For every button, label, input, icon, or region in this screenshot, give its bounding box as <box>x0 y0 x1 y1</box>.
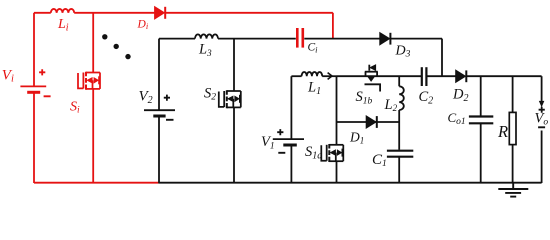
svg-text:Vo: Vo <box>535 111 549 128</box>
wire: L2 bottom to D1 junction and C1 <box>398 110 400 150</box>
svg-text:L3: L3 <box>198 42 212 58</box>
wire: R branch vertical top <box>512 76 514 112</box>
wire: L3 to Ci left plate <box>218 38 296 40</box>
wire: L1 to junction with arrow <box>322 75 336 77</box>
wire: red top horizontal (Di to right corner) <box>165 12 333 14</box>
battery Vi <box>20 69 50 96</box>
wire: S2 drain vertical <box>233 39 235 92</box>
wire: S2 source vertical to rail <box>233 107 235 183</box>
wire: S1a source to rail <box>336 161 338 183</box>
wire: Vo lower vertical to rail <box>541 131 543 184</box>
svg-text:Li: Li <box>57 17 69 34</box>
svg-text:Co1: Co1 <box>448 110 466 127</box>
wire: L2 node vertical top <box>398 76 400 86</box>
wire: red top horizontal (corner to inductor Li) <box>34 12 51 14</box>
diode D3 <box>380 33 391 45</box>
wire: red top loop left vertical <box>33 13 35 86</box>
svg-text:C1: C1 <box>372 152 387 169</box>
wire: V2 bottom to rail <box>158 116 160 183</box>
inductor Li <box>51 9 74 13</box>
svg-text:Di: Di <box>137 18 149 31</box>
wire: D1 line horizontal <box>337 121 400 123</box>
capacitor C2 <box>422 67 427 86</box>
svg-text:Si: Si <box>70 99 80 115</box>
inductor L1 <box>302 72 323 76</box>
svg-text:L1: L1 <box>307 80 321 98</box>
wire: C1 bottom to rail <box>398 157 400 183</box>
wire: red rail bottom <box>34 182 159 184</box>
svg-text:D2: D2 <box>452 87 468 105</box>
svg-text:R: R <box>497 122 508 141</box>
transistor S1a <box>321 144 343 162</box>
svg-text:L2: L2 <box>384 97 398 113</box>
wire: C2 to D2 <box>428 75 456 77</box>
wire: V1/L1 corner vertical <box>290 76 292 138</box>
wire: S1a drain vertical (L1 junction through D1 node) <box>336 76 338 145</box>
minus sign Vo <box>538 126 545 128</box>
wire: L1 junction through S1b to L2 node <box>337 75 422 77</box>
wire: R bottom to rail <box>512 145 514 183</box>
wire: Si drain vertical <box>92 13 94 73</box>
resistor R <box>509 112 516 144</box>
plus sign Vo <box>539 107 545 113</box>
svg-text:C2: C2 <box>419 89 434 107</box>
inductor L3 <box>195 34 218 38</box>
wire: V2 top corner vertical <box>158 39 160 110</box>
wire: V1 bottom to rail <box>290 145 292 183</box>
battery V1 <box>273 129 304 153</box>
wire: Ci right plate to D3 <box>304 38 380 40</box>
svg-text:D3: D3 <box>395 43 411 59</box>
svg-text:V2: V2 <box>139 89 153 106</box>
transistor S2 <box>219 90 241 108</box>
wire: top black line (corner to L3) <box>159 38 195 40</box>
svg-text:Vi: Vi <box>2 67 14 84</box>
transistor S1b (horizontal) <box>365 65 381 92</box>
ground <box>498 183 528 197</box>
diode D2 <box>456 70 467 82</box>
diode D1 <box>366 116 377 128</box>
svg-text:S1a: S1a <box>305 144 322 161</box>
wire: vertical from D3 line down to C2/D2 node <box>441 39 443 77</box>
wire: red right vertical down to Ci node <box>332 13 334 39</box>
wire: corner to L1 <box>291 75 301 77</box>
wire: Vo branch vertical with arrowhead <box>541 76 543 102</box>
node dots (ellipsis) <box>102 34 131 59</box>
battery V2 <box>144 95 175 120</box>
diode Di <box>155 7 166 19</box>
svg-text:Ci: Ci <box>308 42 319 55</box>
inductor L2 (vertical) <box>399 86 404 110</box>
wire: red Vi bottom to rail <box>33 92 35 183</box>
capacitor C1 <box>387 151 413 157</box>
wire: black bottom rail <box>159 182 542 184</box>
wire: Co1 bottom to rail <box>480 123 482 183</box>
wire: red top horizontal (Li to Di) <box>74 12 154 14</box>
wire: Si source vertical to rail <box>92 89 94 183</box>
svg-text:D1: D1 <box>349 130 364 146</box>
wire: D2 to right corner <box>466 75 541 77</box>
svg-text:V1: V1 <box>261 134 275 151</box>
arrow on L1 wire <box>328 73 332 80</box>
transistor Si <box>78 72 100 90</box>
capacitor Ci <box>297 28 303 48</box>
capacitor Co1 <box>469 117 493 124</box>
svg-text:S2: S2 <box>204 85 216 102</box>
wire: D3 to right corner <box>390 38 442 40</box>
svg-text:S1b: S1b <box>356 89 373 107</box>
wire: Co1 branch vertical top <box>480 76 482 116</box>
